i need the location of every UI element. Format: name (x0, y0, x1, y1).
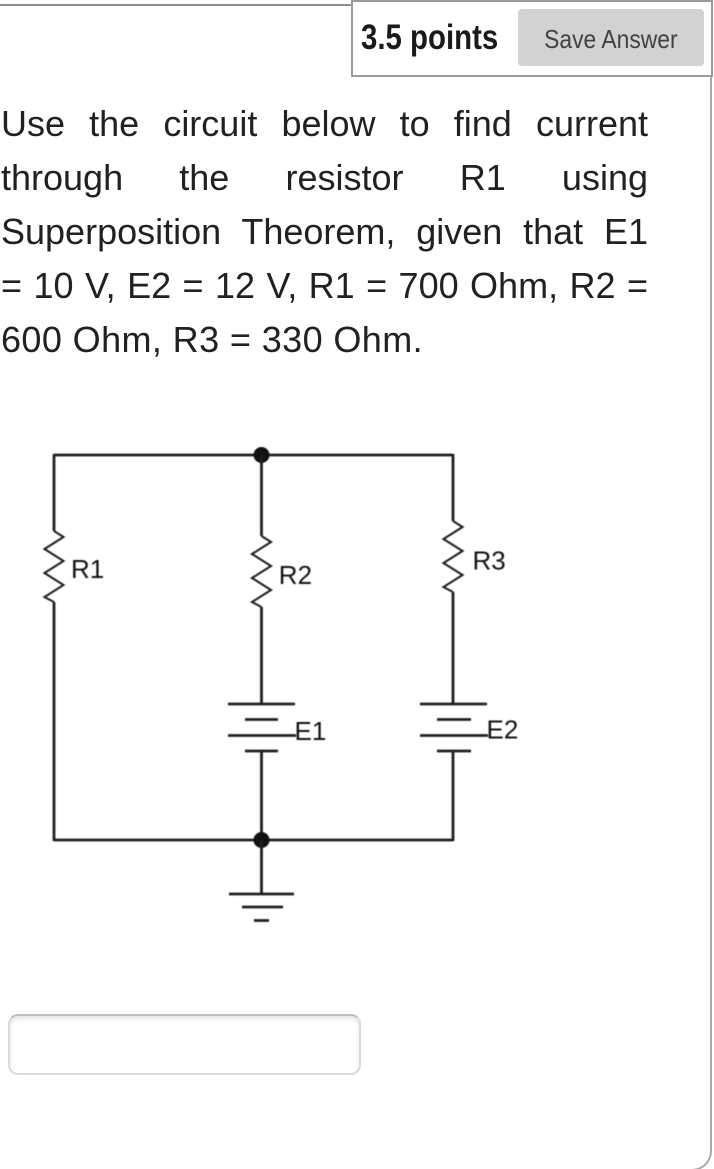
wire middle branch mid (260, 607, 263, 704)
answer input box (8, 1014, 361, 1075)
resistor R2 (252, 536, 271, 607)
svg-text:E1: E1 (295, 716, 327, 746)
node bottom junction (254, 832, 270, 848)
wire bottom horizontal (54, 839, 453, 842)
node top junction (254, 447, 270, 463)
wire middle branch lower (260, 751, 263, 841)
wire right branch upper (452, 454, 455, 521)
3.5 points label (361, 19, 498, 57)
svg-text:R2: R2 (279, 560, 312, 590)
wire left branch lower (53, 602, 56, 841)
wire top horizontal (54, 454, 453, 457)
wire middle branch upper (260, 455, 263, 536)
Save Answer button (518, 9, 704, 66)
battery E1 (228, 704, 296, 751)
svg-text:E2: E2 (487, 715, 519, 745)
question text (1, 97, 648, 367)
svg-text:R3: R3 (473, 546, 506, 576)
svg-text:R1: R1 (71, 554, 104, 584)
wire right branch lower (452, 751, 455, 841)
resistor R3 (444, 521, 463, 592)
wire right branch mid (452, 592, 455, 704)
wire left branch upper (53, 454, 56, 531)
resistor R1 (45, 531, 64, 602)
battery E2 (420, 704, 488, 751)
ground (229, 840, 294, 921)
top horizontal rule (0, 4, 351, 6)
points box (351, 0, 713, 77)
